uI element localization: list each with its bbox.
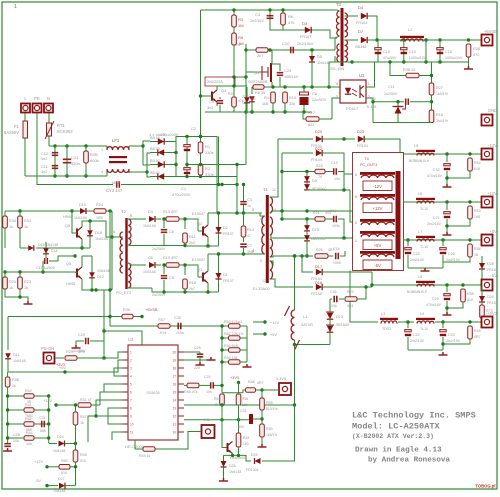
svg-text:1k: 1k: [12, 384, 16, 388]
svg-text:R7: R7: [236, 42, 242, 47]
svg-text:C21: C21: [433, 216, 440, 220]
svg-text:4: 4: [130, 375, 132, 379]
svg-text:R58: R58: [80, 453, 87, 457]
svg-text:D4: D4: [358, 5, 364, 10]
svg-text:D28: D28: [487, 262, 494, 266]
svg-text:50V: 50V: [238, 425, 245, 429]
svg-text:1k: 1k: [9, 225, 13, 229]
svg-text:R27: R27: [436, 86, 443, 90]
svg-text:C16: C16: [445, 50, 452, 54]
svg-text:108: 108: [474, 215, 480, 219]
svg-text:47k: 47k: [288, 20, 294, 25]
svg-text:E13007: E13007: [192, 258, 205, 262]
svg-text:12: 12: [262, 279, 266, 283]
svg-text:FR1004: FR1004: [246, 468, 259, 472]
svg-text:BD1C: BD1C: [150, 159, 160, 163]
svg-text:R54: R54: [243, 436, 249, 440]
svg-text:FC_OUT1: FC_OUT1: [360, 163, 377, 167]
svg-text:C11: C11: [41, 165, 48, 169]
svg-text:15: 15: [172, 391, 176, 395]
svg-text:D4: D4: [148, 210, 153, 214]
svg-text:C22: C22: [413, 333, 420, 337]
svg-text:R55: R55: [242, 397, 248, 401]
svg-text:1R5: 1R5: [96, 216, 103, 220]
svg-text:Q6: Q6: [65, 224, 70, 228]
svg-text:C2B: C2B: [13, 433, 21, 437]
svg-text:L7: L7: [418, 230, 422, 234]
svg-text:FR104: FR104: [357, 144, 368, 148]
svg-text:1N4148: 1N4148: [53, 449, 65, 453]
svg-text:822: 822: [308, 123, 314, 127]
svg-text:D26: D26: [229, 464, 236, 468]
svg-text:D23: D23: [357, 130, 364, 134]
svg-text:C4: C4: [255, 12, 261, 17]
svg-text:L2: L2: [408, 27, 413, 32]
svg-text:R49: R49: [474, 329, 481, 333]
svg-text:4R1: 4R1: [347, 304, 354, 308]
svg-text:BOBBIN-B-9: BOBBIN-B-9: [409, 159, 429, 163]
svg-text:D15: D15: [312, 228, 319, 232]
svg-text:3R9: 3R9: [78, 350, 85, 354]
svg-text:Q1: Q1: [197, 268, 202, 272]
svg-text:L4: L4: [420, 312, 424, 316]
svg-text:PC_ET3: PC_ET3: [116, 290, 132, 295]
svg-text:PS-ON: PS-ON: [41, 346, 54, 351]
svg-text:D12: D12: [97, 275, 104, 279]
svg-text:R63 121k/1: R63 121k/1: [224, 320, 242, 324]
svg-text:47u/50V: 47u/50V: [383, 56, 397, 60]
svg-text:4: 4: [355, 173, 357, 177]
svg-text:+12V: +12V: [270, 321, 279, 325]
svg-text:R14: R14: [247, 228, 254, 232]
svg-text:R44: R44: [26, 431, 33, 435]
svg-text:D17: D17: [315, 265, 322, 269]
svg-text:1000u/10V: 1000u/10V: [445, 56, 463, 60]
svg-text:33k: 33k: [289, 102, 295, 106]
svg-text:6: 6: [130, 391, 132, 395]
svg-text:DBL2040: DBL2040: [311, 237, 326, 241]
svg-text:FR158: FR158: [311, 292, 322, 296]
svg-text:R39 91B: R39 91B: [224, 344, 239, 348]
svg-text:4: 4: [336, 82, 338, 86]
svg-text:FR107: FR107: [300, 35, 311, 39]
svg-text:2u2/50V: 2u2/50V: [152, 247, 166, 251]
svg-text:20: 20: [172, 351, 176, 355]
svg-text:2: 2: [252, 208, 254, 212]
svg-text:9: 9: [260, 217, 262, 221]
svg-text:6: 6: [260, 259, 262, 263]
svg-text:1: 1: [101, 148, 103, 152]
svg-text:C24: C24: [204, 375, 211, 379]
svg-text:+3V3: +3V3: [487, 311, 498, 316]
svg-text:R24: R24: [96, 203, 103, 207]
svg-text:CX1: CX1: [71, 155, 80, 160]
svg-text:TOBOG.pl: TOBOG.pl: [475, 484, 495, 489]
svg-text:R21: R21: [313, 211, 320, 215]
svg-text:3: 3: [130, 367, 132, 371]
svg-text:R18: R18: [189, 281, 196, 285]
svg-text:2m2/10V: 2m2/10V: [410, 339, 425, 343]
svg-text:2u2/50V: 2u2/50V: [384, 92, 398, 96]
svg-text:T1: T1: [263, 187, 268, 192]
svg-text:1N4148: 1N4148: [229, 470, 241, 474]
svg-text:5: 5: [130, 214, 132, 218]
svg-text:470u/16V: 470u/16V: [426, 303, 442, 307]
svg-text:BD1E: BD1E: [150, 171, 160, 175]
svg-text:1k: 1k: [80, 421, 84, 425]
svg-text:GND: GND: [488, 108, 497, 113]
svg-text:2: 2: [130, 359, 132, 363]
svg-text:470u/16V: 470u/16V: [427, 174, 443, 178]
svg-text:by Andrea Ronesova: by Andrea Ronesova: [368, 457, 450, 465]
svg-text:SGF2N60B: SGF2N60B: [248, 80, 268, 84]
svg-text:C13: C13: [331, 161, 338, 165]
svg-text:330n: 330n: [71, 161, 80, 166]
svg-text:TL10: TL10: [420, 207, 428, 211]
svg-text:PC617: PC617: [346, 106, 359, 111]
svg-text:1: 1: [14, 4, 17, 10]
svg-text:R13 4R7: R13 4R7: [163, 210, 178, 214]
svg-text:U1: U1: [359, 73, 365, 78]
svg-text:10: 10: [130, 423, 134, 427]
svg-text:2k2: 2k2: [189, 241, 195, 245]
svg-text:L3: L3: [381, 312, 385, 316]
svg-text:3.3VS: 3.3VS: [276, 377, 287, 381]
svg-text:D11: D11: [13, 353, 20, 357]
svg-text:+5V: +5V: [270, 333, 277, 337]
svg-text:R31 4T: R31 4T: [80, 398, 93, 402]
svg-text:2: 2: [130, 284, 132, 288]
svg-text:-12V: -12V: [488, 143, 497, 148]
svg-text:R2: R2: [205, 166, 211, 171]
svg-text:C23: C23: [448, 333, 455, 337]
svg-text:510: 510: [467, 298, 473, 302]
svg-text:2m2/16V: 2m2/16V: [427, 222, 442, 226]
svg-text:470: 470: [473, 53, 479, 57]
svg-text:6: 6: [355, 195, 357, 199]
svg-text:C14: C14: [333, 247, 340, 251]
svg-text:C12: C12: [41, 152, 48, 156]
svg-text:Drawn in Eagle 4.13: Drawn in Eagle 4.13: [355, 447, 442, 455]
svg-text:L1: L1: [303, 315, 307, 319]
svg-text:D2: D2: [223, 226, 228, 230]
svg-text:BOBBIN-B-9: BOBBIN-B-9: [407, 290, 427, 294]
svg-text:D13: D13: [336, 315, 343, 319]
svg-text:100k: 100k: [332, 224, 340, 228]
svg-text:RT1: RT1: [57, 123, 66, 128]
svg-text:2: 2: [355, 221, 357, 225]
svg-text:1: 1: [130, 351, 132, 355]
svg-text:LF1: LF1: [112, 138, 120, 143]
svg-text:SG-15N: SG-15N: [330, 66, 345, 71]
svg-text:510: 510: [61, 471, 67, 475]
svg-text:100b: 100b: [333, 261, 341, 265]
svg-text:D1: D1: [223, 273, 228, 277]
svg-text:47k: 47k: [238, 99, 244, 103]
svg-text:D24: D24: [57, 435, 64, 439]
svg-text:R10: R10: [289, 96, 296, 100]
svg-text:1k: 1k: [24, 225, 28, 229]
svg-text:L6: L6: [418, 192, 422, 196]
svg-text:D19 1N4148: D19 1N4148: [38, 243, 58, 247]
svg-text:5: 5: [130, 383, 132, 387]
svg-text:2m2/10V: 2m2/10V: [446, 339, 461, 343]
svg-text:1k5/1%: 1k5/1%: [266, 433, 277, 437]
svg-text:11: 11: [130, 431, 134, 435]
svg-text:10k: 10k: [26, 442, 32, 446]
svg-text:+12V: +12V: [43, 399, 52, 403]
svg-text:R54: R54: [474, 161, 481, 165]
svg-text:C3: C3: [247, 198, 252, 202]
svg-text:330k: 330k: [205, 150, 214, 155]
svg-text:FR153: FR153: [487, 268, 498, 272]
svg-text:SG6105: SG6105: [146, 391, 159, 395]
svg-text:TL10: TL10: [420, 327, 428, 331]
svg-text:R52: R52: [214, 397, 220, 401]
svg-text:1N4148: 1N4148: [13, 359, 26, 363]
svg-text:1N4148: 1N4148: [74, 216, 87, 220]
svg-text:R59: R59: [266, 427, 273, 431]
svg-text:Q3: Q3: [254, 70, 260, 75]
svg-text:1N4145: 1N4145: [317, 61, 330, 65]
svg-text:U3: U3: [128, 337, 134, 342]
svg-text:10B/1kV: 10B/1kV: [284, 75, 299, 79]
svg-text:H945: H945: [63, 215, 72, 219]
svg-text:E14: E14: [160, 331, 166, 335]
svg-text:C19: C19: [330, 209, 337, 213]
svg-text:10n: 10n: [206, 390, 212, 394]
svg-text:BD1A: BD1A: [150, 136, 160, 140]
svg-text:D16: D16: [315, 281, 322, 285]
svg-text:-5V: -5V: [35, 479, 41, 483]
svg-text:8: 8: [130, 407, 132, 411]
svg-text:R53: R53: [474, 209, 481, 213]
svg-text:1000u/10V: 1000u/10V: [409, 56, 427, 60]
svg-text:R19 4R7: R19 4R7: [163, 256, 178, 260]
svg-text:R58: R58: [266, 401, 273, 405]
svg-text:D3: D3: [302, 21, 308, 26]
svg-text:R34: R34: [9, 219, 16, 223]
svg-text:16: 16: [474, 253, 478, 257]
svg-text:Q4: Q4: [221, 89, 226, 93]
svg-text:SB1840: SB1840: [336, 323, 349, 327]
svg-text:+12V: +12V: [373, 206, 383, 211]
svg-text:2m2/10V: 2m2/10V: [410, 258, 425, 262]
svg-text:+5V: +5V: [374, 243, 382, 248]
svg-text:2n2/1kV: 2n2/1kV: [250, 19, 264, 23]
svg-text:SCK053: SCK053: [57, 129, 73, 134]
svg-text:R28: R28: [473, 47, 480, 51]
svg-text:888: 888: [40, 429, 46, 433]
svg-text:1N4148: 1N4148: [143, 270, 156, 274]
svg-text:+12V: +12V: [34, 460, 43, 464]
svg-text:C32: C32: [433, 168, 440, 172]
svg-text:14: 14: [172, 399, 176, 403]
svg-text:D20: D20: [315, 130, 322, 134]
svg-text:R4: R4: [264, 96, 269, 100]
svg-text:FR104: FR104: [356, 21, 367, 25]
svg-text:C1: C1: [181, 186, 187, 191]
svg-text:D22: D22: [315, 147, 322, 151]
svg-text:C8: C8: [312, 91, 318, 96]
svg-text:470u/200V: 470u/200V: [160, 133, 179, 137]
svg-text:1k8: 1k8: [262, 102, 268, 106]
svg-text:4n2: 4n2: [41, 157, 47, 161]
svg-text:R29: R29: [66, 350, 73, 354]
svg-text:R5: R5: [238, 35, 244, 40]
svg-text:R23: R23: [316, 164, 323, 168]
svg-text:R17: R17: [308, 111, 315, 115]
svg-text:C31: C31: [240, 409, 247, 413]
svg-text:-5V: -5V: [374, 263, 381, 268]
svg-text:1M: 1M: [238, 23, 244, 28]
svg-text:1k5/1%: 1k5/1%: [436, 92, 449, 96]
svg-text:1N4148: 1N4148: [95, 237, 108, 241]
svg-text:R3: R3: [238, 17, 244, 22]
svg-text:R26: R26: [316, 248, 323, 252]
svg-text:R60: R60: [61, 459, 68, 463]
svg-text:FR107: FR107: [223, 279, 234, 283]
svg-text:2K2/10kV: 2K2/10kV: [297, 42, 314, 46]
svg-text:D7: D7: [358, 29, 364, 34]
svg-text:-5V: -5V: [490, 273, 497, 278]
svg-text:F1: F1: [14, 124, 20, 129]
svg-text:10k: 10k: [13, 439, 19, 443]
svg-text:R47: R47: [80, 415, 87, 419]
svg-text:1k: 1k: [9, 286, 13, 290]
svg-text:4R7: 4R7: [474, 335, 481, 339]
svg-text:16: 16: [172, 383, 176, 387]
svg-text:ZD: ZD: [251, 97, 256, 101]
svg-text:R48: R48: [248, 380, 255, 384]
svg-text:SATUR: SATUR: [301, 323, 313, 327]
svg-text:FR107: FR107: [223, 232, 234, 236]
svg-text:510/1%: 510/1%: [266, 407, 278, 411]
svg-text:R23: R23: [24, 280, 31, 284]
svg-text:R1: R1: [205, 144, 211, 149]
svg-text:R6: R6: [288, 14, 294, 19]
svg-text:6A250V: 6A250V: [4, 130, 19, 135]
svg-text:1k4/1%: 1k4/1%: [436, 119, 449, 123]
svg-text:C5: C5: [169, 276, 174, 280]
svg-text:C7: C7: [247, 244, 252, 248]
svg-text:R11: R11: [189, 235, 196, 239]
svg-text:C35: C35: [330, 290, 337, 294]
svg-text:13: 13: [172, 407, 176, 411]
svg-text:(X-B2002 ATX Ver:2.3): (X-B2002 ATX Ver:2.3): [352, 433, 434, 440]
svg-text:11: 11: [272, 188, 276, 192]
svg-text:800k: 800k: [90, 158, 99, 163]
svg-text:R20: R20: [9, 280, 16, 284]
svg-text:D14: D14: [51, 249, 57, 253]
svg-text:100n: 100n: [176, 331, 184, 335]
svg-text:D6: D6: [148, 256, 153, 260]
svg-text:T3: T3: [336, 2, 342, 7]
svg-text:7: 7: [260, 239, 262, 243]
svg-text:1N4148: 1N4148: [143, 224, 156, 228]
svg-text:C11: C11: [388, 85, 395, 89]
svg-text:C30: C30: [174, 316, 181, 320]
svg-text:FR104: FR104: [311, 158, 322, 162]
svg-text:E13007: E13007: [192, 212, 205, 216]
svg-text:9: 9: [130, 415, 132, 419]
svg-text:BD1B: BD1B: [150, 147, 160, 151]
svg-text:180: 180: [243, 442, 249, 446]
svg-text:EI-33A00: EI-33A00: [253, 286, 270, 291]
svg-text:C24: C24: [284, 68, 292, 73]
svg-text:10k: 10k: [331, 304, 337, 308]
svg-text:L&C Technology Inc. SMPS: L&C Technology Inc. SMPS: [352, 411, 476, 421]
svg-text:11: 11: [173, 423, 177, 427]
svg-text:17: 17: [172, 375, 176, 379]
svg-text:R36: R36: [123, 308, 130, 312]
svg-text:PG: PG: [204, 417, 210, 422]
svg-text:R38 10: R38 10: [403, 68, 415, 72]
svg-text:D18: D18: [95, 231, 102, 235]
svg-text:3N2: 3N2: [247, 250, 254, 254]
svg-text:R62 22k/1%: R62 22k/1%: [224, 332, 244, 336]
svg-text:D27: D27: [58, 477, 65, 481]
svg-text:C6: C6: [169, 230, 174, 234]
svg-text:D5: D5: [317, 54, 323, 59]
svg-text:3n2: 3n2: [207, 106, 213, 110]
svg-text:PE: PE: [34, 96, 40, 101]
svg-text:616: 616: [474, 167, 480, 171]
svg-text:R65: R65: [25, 417, 32, 421]
svg-text:TDR2: TDR2: [382, 327, 391, 331]
svg-text:C10: C10: [282, 41, 290, 46]
svg-text:+12V: +12V: [487, 191, 497, 196]
svg-text:R57: R57: [158, 318, 165, 322]
svg-text:18: 18: [172, 367, 176, 371]
svg-text:C17 1u/50V: C17 1u/50V: [36, 266, 56, 270]
svg-text:C2: C2: [191, 126, 197, 131]
svg-text:C2X: C2X: [78, 333, 86, 337]
svg-text:Model: LC-A250ATX: Model: LC-A250ATX: [352, 422, 441, 432]
svg-text:+5V: +5V: [59, 366, 66, 370]
svg-text:4: 4: [113, 230, 115, 234]
svg-text:1: 1: [355, 239, 357, 243]
svg-text:C13: C13: [409, 50, 416, 54]
svg-text:19: 19: [172, 359, 176, 363]
svg-text:+5VSB: +5VSB: [484, 29, 497, 34]
svg-text:C26: C26: [448, 252, 455, 256]
svg-text:7: 7: [130, 399, 132, 403]
svg-text:R16: R16: [436, 113, 443, 117]
svg-text:2k7: 2k7: [257, 53, 264, 58]
svg-text:CY2 4n7: CY2 4n7: [106, 188, 123, 193]
svg-text:22n: 22n: [194, 366, 200, 370]
svg-text:R33: R33: [24, 219, 31, 223]
svg-text:C9: C9: [209, 100, 214, 104]
svg-text:H945: H945: [66, 282, 75, 286]
svg-text:R42: R42: [25, 389, 32, 393]
svg-text:R44 1k: R44 1k: [139, 454, 151, 458]
svg-text:MFE: MFE: [112, 180, 121, 185]
svg-text:22u/50V: 22u/50V: [312, 98, 327, 102]
svg-text:+5VSB: +5VSB: [145, 307, 158, 312]
svg-text:R2B: R2B: [90, 152, 98, 157]
svg-text:10: 10: [172, 431, 176, 435]
svg-text:79: 79: [318, 175, 322, 179]
svg-text:2k7: 2k7: [189, 287, 195, 291]
svg-text:47: 47: [247, 234, 251, 238]
svg-text:C15: C15: [383, 50, 390, 54]
svg-text:R46 47k: R46 47k: [184, 390, 198, 394]
svg-text:4R7: 4R7: [257, 381, 264, 385]
svg-text:C23: C23: [39, 416, 45, 420]
svg-text:1n: 1n: [247, 204, 251, 208]
